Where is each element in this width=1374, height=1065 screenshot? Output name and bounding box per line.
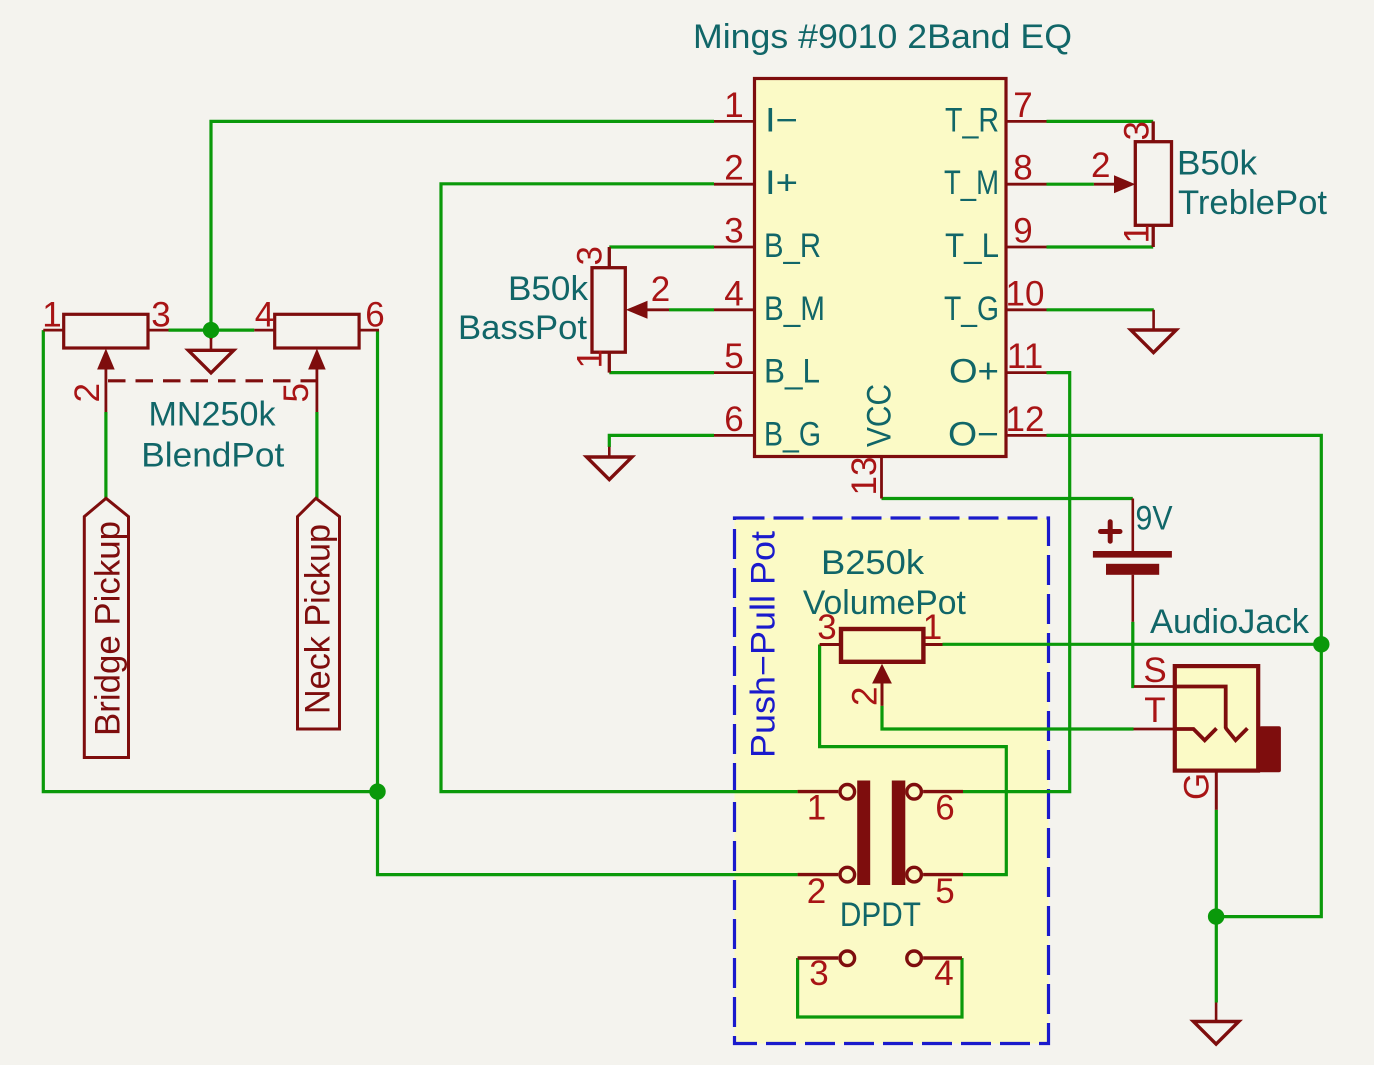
wire VCC pin13 to battery — [882, 497, 1133, 500]
svg-text:2: 2 — [846, 687, 885, 706]
svg-text:BassPot: BassPot — [458, 309, 588, 347]
wire volumepot pin3 to DPDT pin5 — [820, 645, 1007, 875]
svg-text:1: 1 — [1117, 224, 1156, 243]
svg-text:5: 5 — [935, 872, 954, 911]
wire DPDT pin3 to pin4 loop — [798, 958, 962, 1017]
battery plus sign — [1101, 529, 1121, 534]
svg-text:4: 4 — [724, 274, 743, 313]
treble pot RV4 body — [1135, 121, 1171, 247]
blend pot B wiper arrow — [308, 349, 326, 413]
svg-text:T_G: T_G — [944, 290, 999, 328]
svg-text:1: 1 — [42, 296, 61, 335]
blend pot A wiper arrow — [97, 349, 115, 413]
svg-text:B_G: B_G — [764, 415, 821, 453]
junction node blend mid — [203, 322, 219, 338]
svg-text:2: 2 — [807, 872, 826, 911]
neck pickup global label shape — [298, 498, 340, 729]
pin 2 I+ of U1 — [714, 183, 755, 186]
svg-text:9V: 9V — [1136, 500, 1173, 538]
pin 1 I- of U1 — [714, 120, 755, 123]
svg-text:1: 1 — [724, 86, 743, 125]
pin 10 T_G of U1 — [1006, 308, 1047, 311]
svg-text:3: 3 — [1117, 121, 1156, 140]
volume pot RV2 body — [820, 629, 943, 662]
wire blendpot pin1 down to pickup bus — [43, 330, 377, 791]
pin 6 — [907, 785, 922, 800]
junction node ground net — [1208, 908, 1224, 924]
blend pot RV1 section B body — [254, 314, 379, 348]
pin 2 — [840, 867, 855, 882]
wire volumepot pin1 to jack net — [943, 643, 1322, 646]
svg-text:MN250k: MN250k — [149, 396, 277, 434]
battery BT1 — [1093, 499, 1172, 622]
wire I+ net: IC pin2 to DPDT pin1 — [441, 184, 798, 792]
svg-text:B_R: B_R — [764, 227, 821, 265]
svg-text:10: 10 — [1006, 274, 1045, 313]
wire T_R to TreblePot pin3 — [1047, 120, 1154, 123]
wire B_M to BassPot wiper — [669, 308, 714, 311]
svg-text:Mings #9010 2Band EQ: Mings #9010 2Band EQ — [693, 18, 1072, 56]
svg-text:13: 13 — [845, 457, 884, 496]
svg-text:B250k: B250k — [821, 544, 925, 582]
svg-text:TreblePot: TreblePot — [1178, 184, 1328, 222]
gang link dashed line between wipers — [108, 379, 325, 382]
svg-text:3: 3 — [571, 246, 610, 265]
svg-text:O+: O+ — [949, 353, 999, 391]
wire O- to audio jack net — [1047, 435, 1322, 916]
pin 8 T_M of U1 — [1006, 183, 1047, 186]
svg-text:6: 6 — [935, 789, 954, 828]
IC U1 body Mings #9010 — [755, 79, 1007, 457]
svg-text:2: 2 — [651, 270, 670, 309]
svg-text:9: 9 — [1013, 212, 1032, 251]
S pin path — [1175, 687, 1248, 741]
volume pot wiper arrow — [872, 664, 892, 706]
wire B_R to BassPot pin3 — [609, 245, 714, 248]
treble pot wiper arrow — [1094, 175, 1135, 193]
svg-text:B50k: B50k — [1177, 144, 1258, 182]
pin 1 — [840, 785, 855, 800]
wire battery minus to jack S pin — [1133, 622, 1134, 687]
wire blend wiper A to bridge pickup — [104, 412, 107, 498]
junction node pickup bus — [369, 783, 385, 799]
ground symbol at B_G — [587, 447, 632, 480]
audio jack internal contacts — [1134, 687, 1248, 810]
WIRES (green) — [43, 121, 1321, 1017]
svg-text:T_R: T_R — [945, 101, 999, 139]
T pin line — [1134, 728, 1175, 731]
svg-text:3: 3 — [151, 296, 170, 335]
wire O+ to DPDT pin6 — [963, 373, 1070, 792]
ground symbol at T_G — [1131, 310, 1176, 353]
svg-text:6: 6 — [724, 400, 743, 439]
pin 5 — [907, 867, 922, 882]
svg-text:BlendPot: BlendPot — [141, 436, 285, 474]
svg-text:3: 3 — [724, 212, 743, 251]
svg-text:I−: I− — [765, 101, 798, 139]
svg-text:VCC: VCC — [861, 384, 899, 447]
pin 13 VCC of U1 — [880, 457, 883, 499]
bass pot wiper arrow — [626, 301, 669, 319]
G pin stem — [1215, 772, 1218, 810]
wire blendpot pin6 down through junction to DPDT pin2 — [378, 330, 798, 875]
svg-text:B_L: B_L — [764, 353, 820, 391]
svg-text:B50k: B50k — [508, 270, 589, 308]
svg-text:5: 5 — [724, 337, 743, 376]
wire blend wiper B to neck pickup — [315, 412, 318, 498]
wire blendpot pin3 to pin4 through junction — [169, 329, 255, 332]
svg-text:Push−Pull Pot: Push−Pull Pot — [745, 530, 783, 758]
pin 3 B_R of U1 — [714, 246, 755, 249]
wire B_G to ground — [609, 435, 714, 447]
svg-text:7: 7 — [1013, 86, 1032, 125]
pin 11 O+ of U1 — [1006, 371, 1047, 374]
blend pot RV1 section A body — [43, 314, 168, 348]
pin 5 B_L of U1 — [714, 371, 755, 374]
svg-text:11: 11 — [1007, 337, 1043, 376]
wire B_L to BassPot pin1 — [609, 371, 714, 374]
svg-text:T_M: T_M — [944, 164, 999, 202]
svg-text:O−: O− — [948, 415, 999, 453]
pin 9 T_L of U1 — [1006, 246, 1047, 249]
svg-text:1: 1 — [807, 789, 826, 828]
wire T_G to ground — [1047, 308, 1154, 311]
bridge pickup global label shape — [84, 498, 128, 757]
svg-text:Bridge Pickup: Bridge Pickup — [89, 521, 128, 736]
pin 3 — [840, 951, 855, 966]
wire T_L to TreblePot pin1 — [1047, 245, 1154, 248]
svg-text:G: G — [1177, 773, 1216, 800]
svg-text:S: S — [1143, 651, 1166, 690]
svg-text:3: 3 — [809, 954, 828, 993]
svg-text:1: 1 — [571, 349, 610, 368]
bass pot RV3 body — [592, 247, 625, 373]
pin 6 B_G of U1 — [714, 434, 755, 437]
svg-text:I+: I+ — [765, 164, 798, 202]
DPDT pole bars — [857, 781, 870, 886]
wire gnd stub blendpot junction — [209, 330, 212, 339]
svg-text:12: 12 — [1006, 400, 1045, 439]
svg-text:T: T — [1144, 691, 1165, 730]
svg-text:Neck Pickup: Neck Pickup — [299, 524, 338, 714]
svg-text:B_M: B_M — [764, 290, 825, 328]
svg-text:2: 2 — [68, 383, 107, 402]
svg-text:T_L: T_L — [945, 227, 999, 265]
wire I- net: IC pin1 to blendpot junction — [211, 121, 714, 330]
ground symbol bottom right — [1193, 1003, 1238, 1045]
wire T_M to TreblePot wiper — [1047, 183, 1094, 186]
wire jack G down to ground junction — [1215, 810, 1218, 1003]
pin 7 T_R of U1 — [1006, 120, 1047, 123]
svg-text:DPDT: DPDT — [840, 896, 921, 934]
svg-text:AudioJack: AudioJack — [1150, 603, 1310, 641]
svg-text:2: 2 — [724, 149, 743, 188]
audio jack body — [1175, 666, 1258, 771]
svg-text:6: 6 — [365, 296, 384, 335]
S pin line — [1134, 685, 1175, 688]
svg-text:4: 4 — [255, 296, 274, 335]
wire volumepot wiper to jack T pin — [882, 706, 1134, 729]
pin 4 — [907, 951, 922, 966]
ground symbol at blendpot — [188, 338, 233, 373]
svg-text:8: 8 — [1013, 149, 1032, 188]
svg-text:VolumePot: VolumePot — [803, 584, 967, 622]
DPDT switch SW1 — [798, 785, 963, 966]
audio jack sleeve block — [1259, 726, 1281, 772]
svg-text:4: 4 — [934, 954, 953, 993]
pin 12 O- of U1 — [1006, 434, 1047, 437]
svg-text:2: 2 — [1091, 146, 1110, 185]
T pin path — [1175, 728, 1217, 740]
push-pull pot enclosure (dashed blue box) — [735, 518, 1049, 1044]
pin 4 B_M of U1 — [714, 308, 755, 311]
svg-text:5: 5 — [277, 383, 316, 402]
junction node jack tip net — [1313, 636, 1329, 652]
